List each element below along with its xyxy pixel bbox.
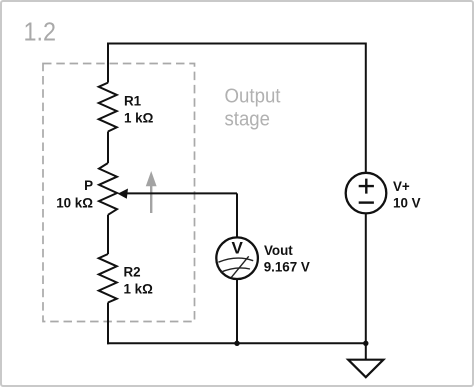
resistor R2 bbox=[99, 254, 117, 303]
svg-text:V+: V+ bbox=[393, 179, 410, 194]
wire right branch top bbox=[365, 43, 367, 173]
svg-text:1 kΩ: 1 kΩ bbox=[124, 282, 154, 297]
minus sign bbox=[359, 201, 374, 203]
label Vout bbox=[264, 243, 310, 275]
wire bottom rail bbox=[107, 342, 366, 344]
wire R2 to bottom rail bbox=[107, 303, 109, 345]
svg-text:P: P bbox=[84, 178, 93, 193]
wire to ground bbox=[365, 343, 367, 359]
svg-text:Vout: Vout bbox=[264, 243, 293, 258]
svg-text:1 kΩ: 1 kΩ bbox=[124, 110, 154, 125]
label P bbox=[56, 178, 93, 210]
voltmeter scale arcs bbox=[218, 258, 253, 262]
potentiometer P bbox=[99, 163, 117, 215]
wire R1 to P bbox=[107, 132, 109, 164]
junction dot voltmeter/bottom rail bbox=[234, 341, 239, 346]
ground bbox=[348, 360, 383, 378]
label R1 bbox=[124, 93, 154, 125]
voltmeter needle bbox=[231, 256, 248, 277]
wiper wire to voltmeter node bbox=[126, 192, 237, 194]
svg-text:Output: Output bbox=[225, 85, 281, 108]
label V+ bbox=[393, 179, 421, 210]
voltmeter U1 bbox=[216, 237, 258, 279]
svg-text:10 kΩ: 10 kΩ bbox=[56, 195, 93, 210]
voltage source V+ bbox=[346, 173, 387, 214]
svg-text:R2: R2 bbox=[124, 265, 141, 280]
label R2 bbox=[124, 265, 154, 297]
wire left branch top bbox=[107, 43, 109, 83]
wire top rail bbox=[108, 43, 366, 45]
svg-text:R1: R1 bbox=[124, 93, 142, 108]
junction dot source/bottom rail bbox=[363, 341, 368, 346]
resistor R1 bbox=[99, 83, 117, 132]
label Output stage bbox=[225, 85, 281, 131]
wiper arrowhead bbox=[118, 189, 128, 199]
plus sign bbox=[359, 179, 374, 194]
svg-text:9.167 V: 9.167 V bbox=[264, 259, 310, 274]
svg-text:1.2: 1.2 bbox=[24, 17, 57, 47]
wire voltmeter to bottom rail bbox=[236, 279, 238, 343]
wire wiper node down to voltmeter bbox=[236, 193, 238, 237]
svg-text:stage: stage bbox=[225, 107, 271, 130]
svg-text:10 V: 10 V bbox=[393, 195, 421, 210]
dashed output-stage box bbox=[43, 64, 195, 322]
gray wiper-direction arrow bbox=[150, 186, 152, 213]
svg-text:V: V bbox=[232, 238, 244, 257]
wire right branch bottom bbox=[365, 214, 367, 343]
wire P to R2 bbox=[107, 215, 109, 254]
